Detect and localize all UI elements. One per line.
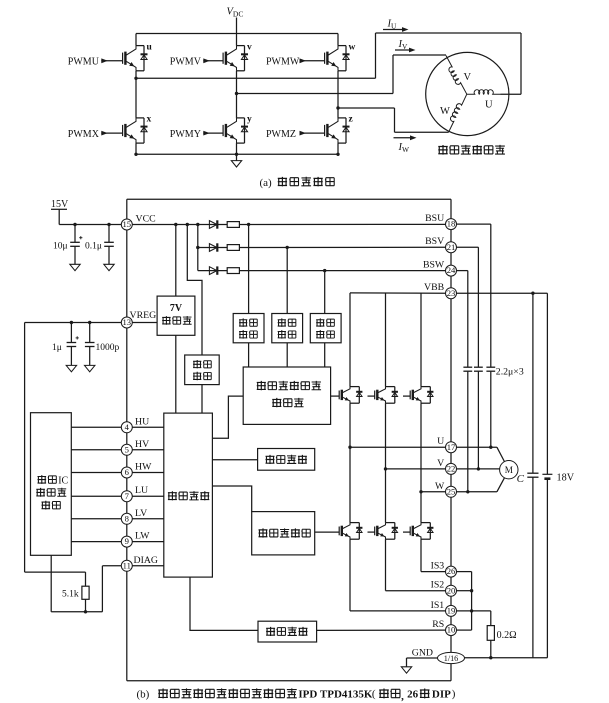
svg-text:M: M: [505, 465, 513, 475]
svg-text:BSU: BSU: [425, 213, 444, 224]
svg-text:17: 17: [447, 442, 456, 452]
svg-text:10: 10: [447, 625, 456, 635]
svg-text:26: 26: [447, 566, 456, 576]
svg-text:x: x: [147, 115, 152, 125]
svg-text:4: 4: [125, 422, 130, 432]
svg-text:y: y: [247, 115, 252, 125]
svg-text:7V: 7V: [170, 303, 183, 314]
svg-text:7: 7: [125, 491, 130, 501]
svg-text:PWMV: PWMV: [170, 57, 202, 68]
svg-text:15V: 15V: [51, 199, 69, 210]
svg-text:v: v: [247, 43, 252, 53]
svg-text:1μ: 1μ: [52, 343, 62, 353]
svg-text:IC: IC: [58, 475, 68, 486]
svg-text:PWMX: PWMX: [68, 129, 100, 140]
svg-text:15: 15: [123, 219, 132, 229]
svg-text:DIP: DIP: [432, 688, 451, 700]
svg-text:HU: HU: [135, 416, 149, 427]
svg-text:): ): [452, 688, 456, 700]
svg-text:23: 23: [447, 288, 456, 298]
svg-text:PWMY: PWMY: [170, 129, 201, 140]
svg-text:W: W: [435, 481, 445, 492]
svg-text:22: 22: [447, 464, 456, 474]
svg-text:18V: 18V: [557, 472, 575, 483]
svg-text:21: 21: [447, 242, 456, 252]
svg-text:U: U: [437, 436, 444, 447]
svg-text:19: 19: [447, 606, 456, 616]
svg-text:LW: LW: [135, 531, 150, 542]
svg-text:6: 6: [125, 467, 130, 477]
svg-text:(a): (a): [260, 177, 273, 189]
svg-text:9: 9: [125, 536, 129, 546]
svg-text:25: 25: [447, 486, 456, 496]
svg-text:RS: RS: [432, 619, 444, 630]
svg-text:0.1μ: 0.1μ: [85, 242, 102, 252]
svg-text:V: V: [464, 72, 472, 83]
svg-text:IS3: IS3: [431, 561, 445, 572]
svg-text:BSW: BSW: [423, 260, 445, 271]
svg-text:20: 20: [447, 585, 456, 595]
svg-text:IS1: IS1: [431, 600, 445, 611]
svg-text:HV: HV: [135, 439, 149, 450]
svg-text:PWMZ: PWMZ: [266, 129, 296, 140]
svg-text:10μ: 10μ: [53, 242, 68, 252]
svg-text:1/16: 1/16: [444, 654, 459, 663]
svg-text:24: 24: [447, 265, 456, 275]
svg-text:VREG: VREG: [130, 310, 157, 321]
svg-text:IPD TPD4135K: IPD TPD4135K: [298, 688, 372, 700]
svg-text:LU: LU: [135, 485, 148, 496]
svg-text:IS2: IS2: [431, 580, 445, 591]
svg-text:W: W: [440, 106, 450, 117]
svg-text:GND: GND: [412, 647, 433, 658]
svg-text:VBB: VBB: [424, 282, 445, 293]
svg-text:8: 8: [125, 513, 129, 523]
svg-text:U: U: [485, 100, 493, 111]
svg-text:,: ,: [401, 691, 404, 703]
svg-text:11: 11: [123, 560, 131, 570]
svg-text:5: 5: [125, 444, 129, 454]
svg-text:PWMU: PWMU: [68, 57, 100, 68]
svg-text:(: (: [372, 688, 376, 700]
svg-text:VCC: VCC: [136, 213, 156, 224]
svg-text:HW: HW: [135, 462, 152, 473]
svg-text:V: V: [437, 458, 444, 469]
svg-text:DIAG: DIAG: [134, 555, 159, 566]
svg-text:C: C: [517, 473, 525, 485]
svg-text:LV: LV: [135, 508, 147, 519]
svg-text:PWMW: PWMW: [266, 57, 300, 68]
svg-text:2.2μ×3: 2.2μ×3: [496, 366, 524, 377]
svg-text:w: w: [349, 43, 356, 53]
svg-text:18: 18: [447, 219, 456, 229]
svg-text:u: u: [147, 43, 153, 53]
svg-text:0.2Ω: 0.2Ω: [497, 630, 517, 641]
svg-text:26: 26: [407, 688, 419, 700]
svg-text:(b): (b): [137, 688, 150, 700]
svg-text:1000p: 1000p: [96, 343, 120, 353]
svg-text:BSV: BSV: [425, 236, 444, 247]
svg-text:5.1k: 5.1k: [62, 590, 79, 600]
